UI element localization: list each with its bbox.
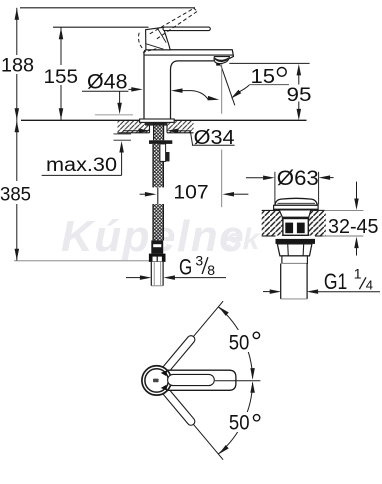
- drain nut collar: [282, 256, 308, 264]
- svg-text:8: 8: [207, 262, 215, 278]
- svg-text:Ø63: Ø63: [277, 167, 319, 190]
- dimension 107 (spout reach): [140, 181, 249, 203]
- drain tailpipe G1 1/4: [281, 264, 307, 299]
- dimension max.30 (mounting thickness): [42, 134, 131, 176]
- hose break centerline: [157, 187, 159, 204]
- angle leg line upper: [166, 301, 223, 369]
- faucet body circle (top view): [142, 366, 171, 395]
- svg-text:155: 155: [44, 66, 79, 88]
- dimension 188 (height to raised lever): [1, 8, 34, 121]
- label 50deg upper: [226, 330, 263, 355]
- water stream line (15 deg): [221, 65, 235, 105]
- dimension 155 (height to lever): [44, 27, 79, 120]
- svg-text:95: 95: [287, 84, 312, 106]
- extension line spout outlet axis: [221, 64, 223, 207]
- countertop top line: [21, 119, 307, 121]
- drain washer: [276, 239, 316, 244]
- aerator / spout outlet: [214, 57, 229, 66]
- svg-text:1: 1: [354, 266, 362, 282]
- dimension G1 1/4 (drain thread): [263, 266, 380, 294]
- countertop cross-section hatch with faucet hole: [118, 120, 194, 133]
- arm base wedge lower: [161, 385, 168, 391]
- svg-text:G: G: [179, 255, 192, 280]
- svg-text:107: 107: [173, 181, 208, 203]
- svg-text:50: 50: [229, 332, 250, 355]
- lever (top view): [167, 370, 236, 390]
- angle arc lower 50: [217, 381, 255, 456]
- svg-text:4: 4: [366, 278, 373, 293]
- drain body with overflow slots: [279, 210, 311, 235]
- dimension 385 (overall depth): [0, 120, 31, 260]
- dimension O48 (base diameter): [82, 70, 220, 115]
- dimension 32-45 (basin thickness range): [328, 182, 379, 256]
- label 50deg lower: [226, 412, 263, 435]
- svg-text:15: 15: [251, 65, 276, 88]
- faucet body (side view): [144, 50, 234, 120]
- arm base wedge upper: [161, 370, 168, 376]
- handle arm rotated -50 (top view): [167, 393, 191, 422]
- flexible hose braid (lower): [153, 204, 163, 240]
- threaded shank below counter: [154, 122, 164, 140]
- drain pop-up cap: [274, 198, 319, 210]
- lever groove (top view): [168, 374, 215, 385]
- svg-text:385: 385: [0, 184, 31, 206]
- svg-text:G1: G1: [324, 269, 347, 294]
- svg-text:sk: sk: [226, 223, 261, 256]
- watermark Kupelne.sk: [61, 212, 261, 261]
- centerline (top view): [215, 380, 260, 382]
- dimension O34 (hole diameter): [123, 126, 235, 149]
- faucet base plate: [140, 119, 175, 126]
- svg-text:3: 3: [195, 253, 203, 269]
- dimension 15deg (spout angle): [229, 65, 289, 101]
- angle leg line lower: [166, 392, 223, 460]
- svg-text:32-45: 32-45: [328, 215, 379, 238]
- lever raised position (dashed): [138, 8, 197, 52]
- angle arc upper 50: [217, 305, 255, 380]
- handle arm rotated +50 (top view): [167, 340, 191, 369]
- hose end pipe G3/8: [151, 262, 163, 286]
- ref line top (lever raised tip level): [20, 7, 195, 9]
- flexible hose braid (upper): [153, 144, 163, 188]
- lever blade (side view): [163, 27, 210, 31]
- hose connection nut G3/8: [149, 254, 166, 262]
- drain hex nut: [277, 244, 312, 256]
- svg-text:Ø34: Ø34: [194, 126, 235, 149]
- svg-text:188: 188: [1, 54, 34, 76]
- basin cross-section hatch at drain: [262, 210, 364, 236]
- dimension O63 (drain cap diameter): [246, 167, 334, 204]
- hose crimp collar: [151, 240, 163, 253]
- svg-text:50: 50: [229, 412, 250, 435]
- dimension 95 (outlet height): [229, 63, 311, 120]
- dimension G 3/8 (supply thread): [126, 253, 226, 280]
- ref line 385 bottom: [14, 260, 152, 262]
- svg-text:Ø48: Ø48: [87, 70, 128, 93]
- logo mark on cap: [153, 379, 159, 383]
- svg-text:max.30: max.30: [46, 155, 117, 176]
- lever handle base (side view): [146, 27, 171, 50]
- mounting nut: [149, 140, 172, 144]
- ref line 155 (lever top level): [53, 26, 149, 28]
- second hose stub fitting: [160, 144, 170, 162]
